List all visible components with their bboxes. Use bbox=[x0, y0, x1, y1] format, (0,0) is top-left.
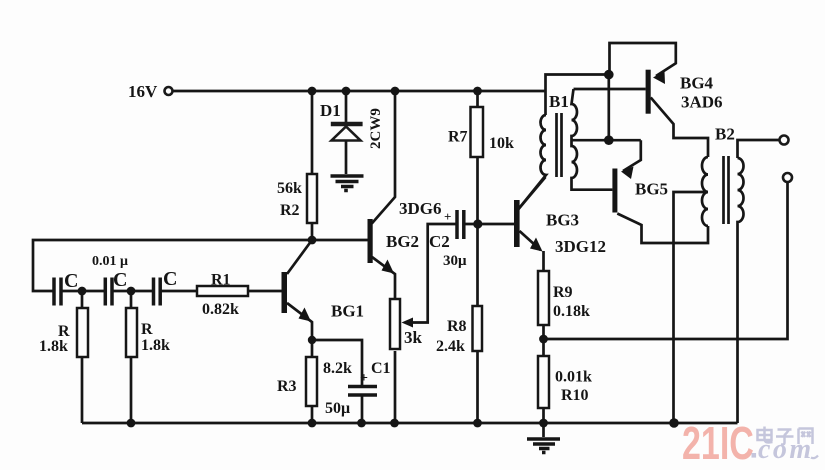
svg-text:3k: 3k bbox=[404, 328, 423, 347]
svg-text:8.2k: 8.2k bbox=[323, 360, 352, 377]
svg-text:C: C bbox=[113, 269, 127, 291]
svg-text:BG1: BG1 bbox=[331, 302, 364, 321]
svg-text:3AD6: 3AD6 bbox=[681, 93, 723, 112]
svg-text:0.82k: 0.82k bbox=[202, 301, 239, 318]
svg-text:R2: R2 bbox=[280, 202, 300, 219]
svg-text:R1: R1 bbox=[211, 272, 231, 289]
svg-text:0.01 μ: 0.01 μ bbox=[92, 254, 128, 269]
svg-text:R: R bbox=[141, 321, 153, 338]
svg-text:1.8k: 1.8k bbox=[141, 337, 170, 354]
svg-text:2.4k: 2.4k bbox=[436, 338, 465, 355]
svg-text:BG2: BG2 bbox=[386, 232, 419, 251]
svg-text:com: com bbox=[758, 434, 814, 465]
svg-text:2CW9: 2CW9 bbox=[368, 108, 384, 149]
svg-text:30μ: 30μ bbox=[443, 253, 467, 269]
svg-text:+: + bbox=[444, 209, 451, 224]
svg-text:0.18k: 0.18k bbox=[553, 303, 590, 320]
svg-text:50μ: 50μ bbox=[325, 400, 350, 417]
svg-text:10k: 10k bbox=[489, 135, 514, 152]
svg-text:3DG6: 3DG6 bbox=[399, 199, 442, 218]
svg-text:16V: 16V bbox=[128, 82, 158, 101]
svg-text:1.8k: 1.8k bbox=[39, 338, 68, 355]
svg-text:56k: 56k bbox=[277, 180, 302, 197]
svg-text:B2: B2 bbox=[715, 125, 735, 144]
svg-text:BG4: BG4 bbox=[680, 74, 714, 93]
svg-text:R8: R8 bbox=[447, 318, 467, 335]
svg-text:C2: C2 bbox=[429, 232, 450, 251]
svg-text:+: + bbox=[360, 371, 368, 386]
svg-text:B1: B1 bbox=[549, 92, 569, 111]
svg-text:BG3: BG3 bbox=[546, 211, 579, 230]
svg-text:R9: R9 bbox=[553, 284, 573, 301]
svg-text:BG5: BG5 bbox=[635, 180, 668, 199]
svg-text:R10: R10 bbox=[561, 387, 589, 404]
svg-text:21IC: 21IC bbox=[682, 417, 754, 469]
svg-text:0.01k: 0.01k bbox=[555, 369, 592, 386]
svg-text:C: C bbox=[64, 270, 78, 292]
svg-text:D1: D1 bbox=[320, 101, 341, 120]
svg-text:C: C bbox=[163, 268, 177, 290]
svg-text:C1: C1 bbox=[371, 360, 391, 377]
svg-text:3DG12: 3DG12 bbox=[555, 237, 606, 256]
svg-text:R3: R3 bbox=[277, 378, 297, 395]
svg-text:R7: R7 bbox=[448, 129, 468, 146]
